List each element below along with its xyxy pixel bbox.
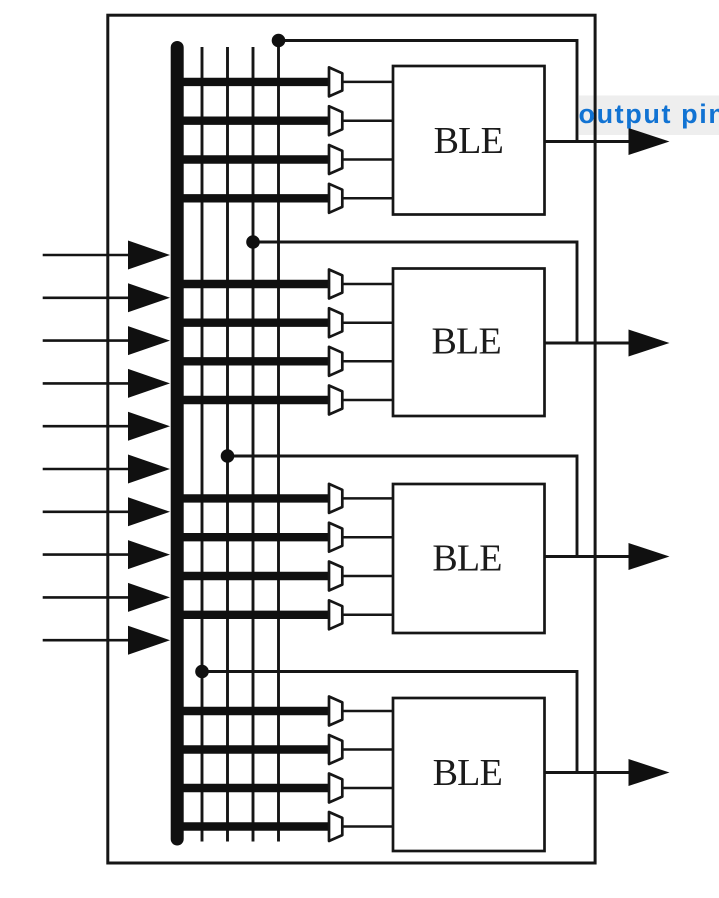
BLE2 input wire a <box>172 280 331 288</box>
BLE3 input wire d <box>172 611 331 619</box>
BLE4 feedback wire <box>202 672 577 773</box>
BLE3 input wire a <box>172 494 331 502</box>
BLE4 input mux a <box>329 697 342 726</box>
junction node N1 <box>272 34 286 48</box>
BLE1 input wire d <box>172 194 331 202</box>
BLE4 input mux c <box>329 774 342 803</box>
BLE1 input wire c <box>172 155 331 163</box>
BLE3 output wire <box>545 555 641 558</box>
input bus <box>171 48 184 840</box>
input pin arrow 7 <box>43 497 170 526</box>
junction node N2 <box>246 235 260 249</box>
BLE4 input wire a <box>172 707 331 715</box>
BLE1 input mux b <box>329 106 342 135</box>
BLE1 input mux a <box>329 67 342 96</box>
BLE2 output wire <box>545 342 641 345</box>
feedback line FB2 (from BLE2) <box>252 47 255 842</box>
BLE1 output arrowhead <box>629 128 670 155</box>
BLE4 output wire <box>545 771 641 774</box>
BLE2 input mux a <box>329 270 342 299</box>
input pin arrow 5 <box>43 412 170 441</box>
BLE U3 box <box>393 484 545 633</box>
svg-text:output pins: output pins <box>579 99 719 129</box>
BLE2 input wire d <box>172 396 331 404</box>
BLE1 input wire a <box>172 78 331 86</box>
BLE2 input mux d <box>329 386 342 415</box>
BLE4 output arrowhead <box>629 759 670 786</box>
BLE4 mux-to-BLE wire c <box>342 787 394 790</box>
input pin arrow 8 <box>43 540 170 569</box>
BLE3 input mux b <box>329 523 342 552</box>
feedback line FB4 (from BLE4) <box>201 47 204 842</box>
BLE3 input wire b <box>172 533 331 541</box>
BLE3 input mux d <box>329 600 342 629</box>
BLE2 output arrowhead <box>629 330 670 357</box>
input pin arrow 9 <box>43 583 170 612</box>
input pin arrow 3 <box>43 326 170 355</box>
svg-text:BLE: BLE <box>432 537 501 579</box>
BLE1 input mux d <box>329 184 342 213</box>
BLE4 input wire b <box>172 745 331 753</box>
BLE3 mux-to-BLE wire c <box>342 575 394 578</box>
BLE4 input mux d <box>329 812 342 841</box>
BLE3 input mux c <box>329 562 342 591</box>
feedback line FB1 (from BLE1) <box>277 41 280 842</box>
BLE2 mux-to-BLE wire c <box>342 360 394 363</box>
BLE1 output wire <box>545 140 641 143</box>
BLE1 mux-to-BLE wire c <box>342 158 394 161</box>
BLE1 feedback wire <box>279 41 578 142</box>
junction node N3 <box>221 449 235 463</box>
BLE3 mux-to-BLE wire a <box>342 497 394 500</box>
BLE4 input mux b <box>329 735 342 764</box>
input pin arrow 2 <box>43 283 170 312</box>
BLE U1 box <box>393 66 545 215</box>
output pin label background <box>579 96 719 136</box>
BLE2 mux-to-BLE wire a <box>342 283 394 286</box>
BLE3 output arrowhead <box>629 543 670 570</box>
BLE3 mux-to-BLE wire b <box>342 536 394 539</box>
BLE1 mux-to-BLE wire b <box>342 119 394 122</box>
input pin arrow 10 <box>43 626 170 655</box>
cluster boundary <box>108 15 595 863</box>
BLE3 input wire c <box>172 572 331 580</box>
output pin label text <box>579 99 719 129</box>
junction node N4 <box>195 665 209 679</box>
input pin arrow 4 <box>43 369 170 398</box>
BLE2 input mux c <box>329 347 342 376</box>
BLE3 input mux a <box>329 484 342 513</box>
BLE4 mux-to-BLE wire a <box>342 710 394 713</box>
BLE2 input wire b <box>172 319 331 327</box>
input pin arrow 1 <box>43 241 170 270</box>
svg-text:BLE: BLE <box>432 320 501 362</box>
BLE1 input wire b <box>172 116 331 124</box>
BLE2 input wire c <box>172 357 331 365</box>
BLE2 mux-to-BLE wire b <box>342 321 394 324</box>
svg-text:BLE: BLE <box>434 120 503 162</box>
BLE U4 box <box>393 698 545 851</box>
BLE4 input wire c <box>172 784 331 792</box>
BLE1 input mux c <box>329 145 342 174</box>
BLE4 mux-to-BLE wire b <box>342 748 394 751</box>
BLE1 mux-to-BLE wire a <box>342 81 394 84</box>
BLE4 input wire d <box>172 822 331 830</box>
BLE1 mux-to-BLE wire d <box>342 197 394 200</box>
BLE3 feedback wire <box>228 456 578 557</box>
svg-text:BLE: BLE <box>433 752 502 794</box>
feedback line FB3 (from BLE3) <box>226 47 229 842</box>
BLE2 input mux b <box>329 308 342 337</box>
BLE4 mux-to-BLE wire d <box>342 825 394 828</box>
BLE3 mux-to-BLE wire d <box>342 614 394 617</box>
BLE U2 box <box>393 269 545 417</box>
BLE2 feedback wire <box>253 242 577 343</box>
BLE2 mux-to-BLE wire d <box>342 399 394 402</box>
input pin arrow 6 <box>43 455 170 484</box>
